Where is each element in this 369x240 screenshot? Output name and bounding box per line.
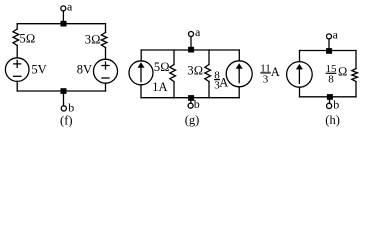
- svg-text:a: a: [67, 0, 73, 13]
- svg-text:5V: 5V: [31, 63, 46, 77]
- svg-text:3Ω: 3Ω: [85, 33, 101, 47]
- svg-text:1A: 1A: [152, 80, 167, 94]
- svg-text:3Ω: 3Ω: [187, 64, 203, 78]
- svg-text:5Ω: 5Ω: [20, 31, 36, 45]
- svg-text:a: a: [195, 25, 201, 39]
- svg-text:b: b: [68, 100, 74, 114]
- svg-text:Ω: Ω: [338, 64, 348, 78]
- svg-text:(g): (g): [185, 113, 200, 127]
- svg-text:8: 8: [328, 73, 334, 85]
- svg-text:a: a: [333, 27, 339, 41]
- svg-text:b: b: [333, 98, 339, 112]
- svg-text:3: 3: [263, 73, 269, 85]
- svg-text:b: b: [194, 97, 200, 111]
- svg-text:8V: 8V: [77, 63, 92, 77]
- svg-text:(h): (h): [325, 113, 340, 127]
- svg-text:(f): (f): [60, 114, 73, 128]
- svg-text:5Ω: 5Ω: [154, 60, 170, 74]
- svg-text:A: A: [219, 75, 228, 89]
- svg-text:A: A: [271, 65, 280, 79]
